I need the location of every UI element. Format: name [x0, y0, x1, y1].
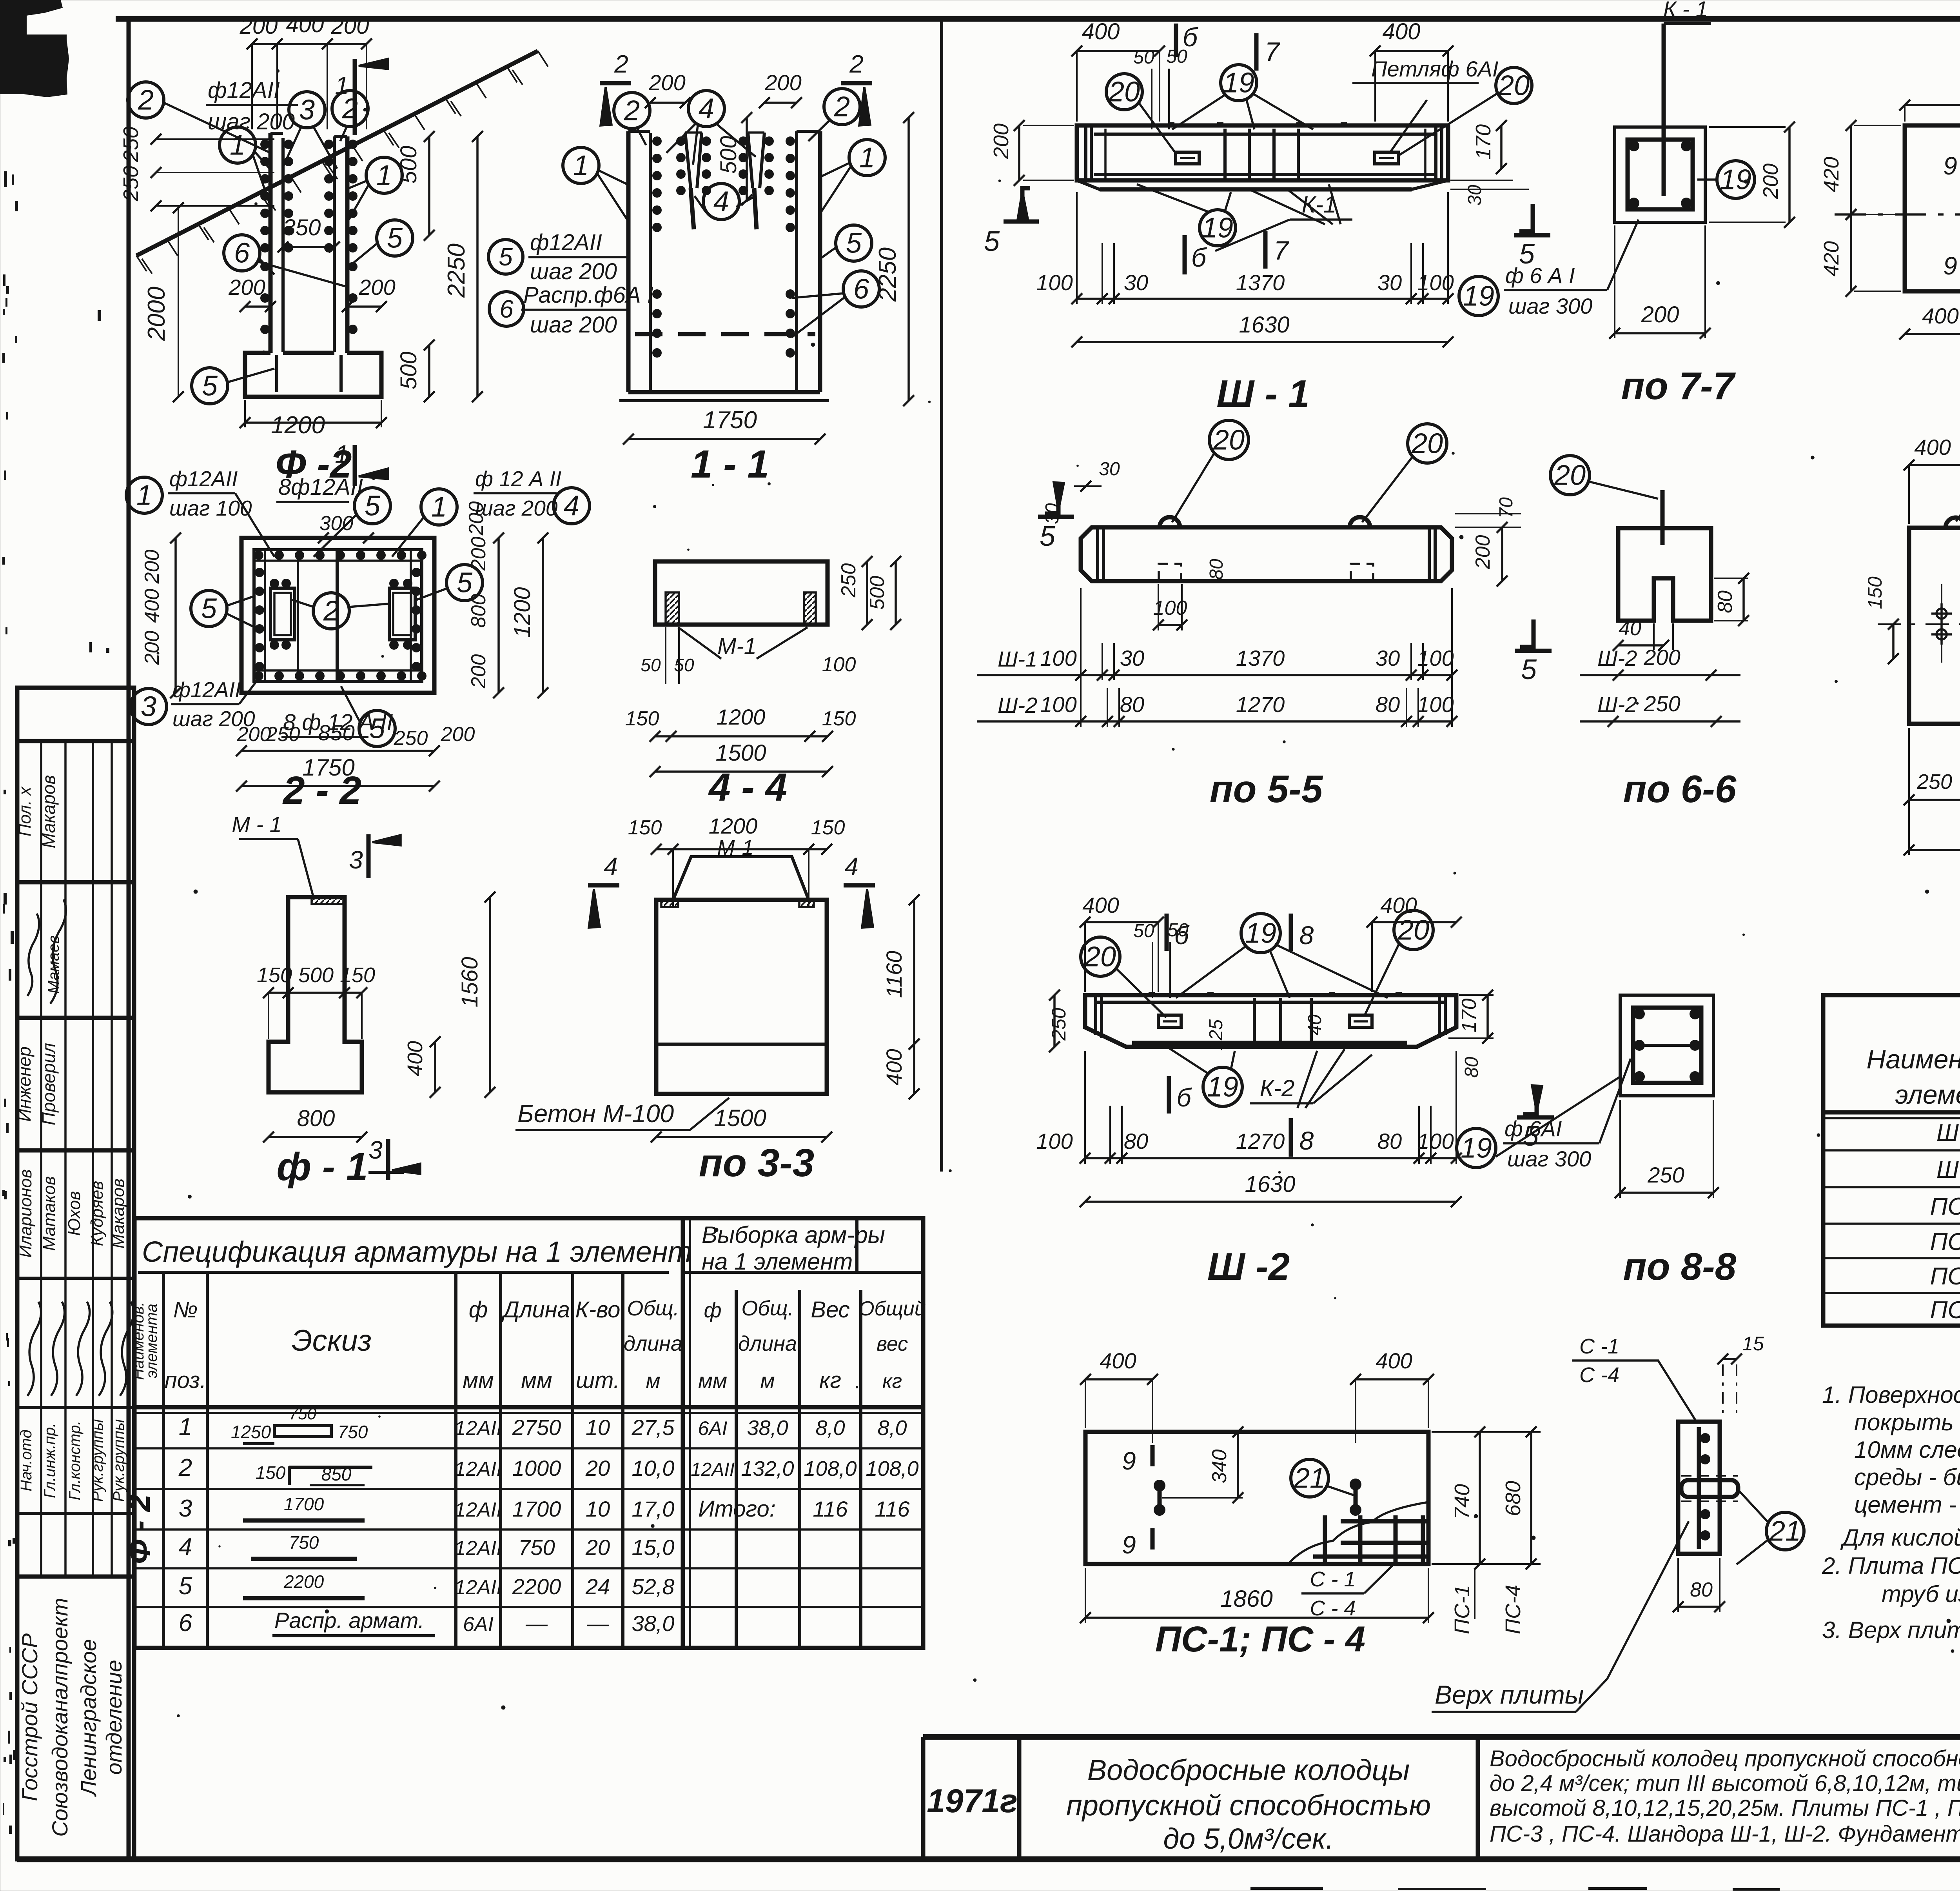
svg-text:ПС-1; ПС - 4: ПС-1; ПС - 4: [1155, 1619, 1365, 1659]
svg-text:400: 400: [141, 589, 163, 623]
callout 19: [1457, 1128, 1496, 1168]
drawing по 5-5 beam top view: [1081, 527, 1452, 581]
svg-text:2: 2: [323, 595, 339, 627]
svg-text:ПС-1: ПС-1: [1450, 1585, 1474, 1634]
Ш-2 loop plates: [1158, 1015, 1181, 1027]
svg-text:150: 150: [628, 816, 662, 839]
svg-text:элемента: элемента: [1895, 1080, 1960, 1110]
svg-text:ПС-1: ПС-1: [1930, 1193, 1960, 1220]
drawing Ф-1 foundation: [269, 897, 362, 1092]
svg-text:4 - 4: 4 - 4: [708, 765, 787, 809]
svg-text:м: м: [760, 1369, 775, 1393]
svg-text:9: 9: [1943, 152, 1957, 180]
svg-text:1270: 1270: [1236, 1129, 1285, 1153]
svg-text:по 3-3: по 3-3: [699, 1141, 814, 1185]
svg-text:б: б: [1174, 921, 1190, 950]
callout 20: [1394, 910, 1433, 950]
svg-text:400: 400: [882, 1049, 906, 1085]
svg-text:150: 150: [625, 707, 659, 730]
Ф-2 right wall: [333, 136, 336, 352]
svg-text:800: 800: [297, 1106, 335, 1131]
svg-text:3: 3: [349, 846, 363, 874]
svg-text:80: 80: [1120, 692, 1144, 717]
svg-text:Распр. армат.: Распр. армат.: [274, 1608, 424, 1633]
svg-text:420: 420: [1820, 241, 1843, 276]
svg-text:1500: 1500: [715, 740, 766, 766]
svg-text:12АII: 12АII: [454, 1499, 502, 1521]
svg-text:1200: 1200: [717, 705, 766, 729]
svg-text:1560: 1560: [457, 957, 483, 1007]
svg-text:250: 250: [119, 166, 143, 202]
ground slope line with hatching: [136, 51, 538, 256]
svg-text:38,0: 38,0: [632, 1611, 675, 1636]
svg-text:1630: 1630: [1245, 1172, 1295, 1197]
svg-text:2: 2: [849, 50, 864, 78]
svg-text:покрыть слоем горячей асфал: покрыть слоем горячей асфальтовой мастик…: [1854, 1409, 1960, 1435]
svg-text:80: 80: [1714, 590, 1737, 613]
svg-text:Ш-2: Ш-2: [1597, 692, 1637, 717]
svg-text:400: 400: [1383, 19, 1421, 44]
svg-text:200: 200: [240, 13, 278, 39]
Ш-1 rebar: [1094, 133, 1435, 136]
svg-text:С -4: С -4: [1579, 1363, 1619, 1387]
svg-text:Длина: Длина: [501, 1297, 570, 1322]
svg-text:40: 40: [1305, 1014, 1325, 1035]
svg-text:2250: 2250: [443, 243, 470, 298]
svg-text:Пол. х: Пол. х: [15, 786, 34, 837]
right dims 740/680: [1479, 1432, 1481, 1564]
svg-text:4: 4: [713, 186, 729, 217]
svg-text:—: —: [525, 1611, 548, 1636]
scan blob top-left: [0, 0, 69, 97]
svg-text:по 6-6: по 6-6: [1623, 767, 1737, 810]
callout 1: [849, 140, 885, 176]
svg-text:Распр.ф6А I: Распр.ф6А I: [523, 282, 653, 308]
svg-text:№: №: [173, 1297, 198, 1322]
section mark 5 left: [1022, 188, 1030, 220]
callout 1: [220, 127, 256, 163]
svg-text:4: 4: [699, 93, 714, 124]
1-1 walls: [626, 131, 631, 392]
svg-text:Макаров: Макаров: [109, 1179, 128, 1249]
svg-text:кг: кг: [819, 1368, 841, 1393]
callout 4: [703, 183, 739, 220]
svg-text:200: 200: [648, 70, 685, 95]
drawing по 7-7 (К-1 cage): [1615, 127, 1705, 222]
section mark 7 bottom: [1263, 231, 1268, 269]
drawing по 6-6 block: [1618, 528, 1711, 621]
svg-text:20: 20: [1084, 941, 1116, 972]
svg-text:4: 4: [844, 852, 858, 881]
svg-text:шаг 300: шаг 300: [1507, 1146, 1591, 1171]
svg-text:6: 6: [853, 273, 869, 305]
svg-text:400: 400: [1376, 1348, 1412, 1373]
svg-text:19: 19: [1461, 1132, 1492, 1164]
svg-text:420: 420: [1820, 157, 1843, 192]
svg-text:Для кислой среды - цемент: Для кислой среды - цемент заменяется мол…: [1840, 1524, 1960, 1551]
svg-text:5: 5: [499, 243, 513, 271]
svg-text:400: 400: [403, 1041, 427, 1076]
svg-text:Вес: Вес: [811, 1297, 849, 1322]
svg-text:250: 250: [1916, 770, 1952, 794]
callout 5: [354, 488, 390, 524]
svg-text:5: 5: [457, 567, 473, 598]
svg-text:250: 250: [394, 727, 428, 750]
svg-text:100: 100: [1040, 646, 1076, 670]
svg-text:80: 80: [1206, 559, 1227, 580]
svg-text:Общий: Общий: [858, 1297, 926, 1320]
svg-text:12АII: 12АII: [691, 1459, 735, 1480]
svg-text:1200: 1200: [510, 587, 535, 638]
svg-text:ф12АII: ф12АII: [208, 78, 280, 103]
svg-text:ПС-3 , ПС-4. Шандора Ш-1, Ш-2.: ПС-3 , ПС-4. Шандора Ш-1, Ш-2. Фундамент…: [1490, 1821, 1960, 1847]
svg-text:350: 350: [283, 215, 321, 240]
callout 5: [359, 710, 395, 747]
svg-text:5: 5: [1521, 654, 1537, 685]
drawing Ш-2 shandor beam: [1085, 995, 1456, 1047]
drawing plan 2-2: [241, 538, 434, 693]
svg-text:19: 19: [1202, 212, 1233, 243]
callout 2: [614, 93, 650, 129]
callout 19: [1241, 914, 1280, 953]
svg-text:м: м: [646, 1369, 660, 1393]
svg-text:250: 250: [1048, 1008, 1070, 1041]
spec row lines: [134, 1447, 923, 1450]
svg-text:мм: мм: [521, 1368, 552, 1393]
svg-text:10,0: 10,0: [632, 1456, 675, 1480]
svg-text:М-1: М-1: [717, 634, 757, 659]
svg-text:Нач.отд: Нач.отд: [18, 1430, 35, 1491]
svg-text:ф: ф: [469, 1297, 488, 1322]
svg-text:7: 7: [1274, 236, 1289, 265]
svg-text:1500: 1500: [714, 1105, 766, 1131]
sheet frame: [116, 16, 1960, 22]
svg-text:ф: ф: [704, 1299, 721, 1322]
1-1 dashed level line: [635, 332, 815, 336]
svg-text:Общ.: Общ.: [741, 1297, 793, 1320]
svg-text:ф 12 А II: ф 12 А II: [475, 467, 561, 491]
svg-text:100: 100: [1036, 270, 1073, 295]
section mark 3 top: [367, 834, 371, 878]
svg-text:М - 1: М - 1: [232, 812, 282, 837]
svg-text:б: б: [1176, 1083, 1192, 1112]
svg-text:2: 2: [624, 95, 640, 126]
callout 4: [688, 91, 724, 127]
section mark 1 (top): [353, 59, 357, 135]
svg-text:Верх плиты: Верх плиты: [1435, 1680, 1584, 1709]
svg-text:длина: длина: [738, 1332, 797, 1355]
svg-text:150: 150: [340, 963, 375, 987]
2-2 column boxes: [270, 588, 295, 640]
svg-text:250: 250: [837, 563, 860, 598]
svg-text:12АII: 12АII: [454, 1537, 502, 1560]
drawing section по 3-3: [673, 857, 809, 900]
svg-text:12АII: 12АII: [454, 1417, 502, 1440]
svg-text:52,8: 52,8: [632, 1574, 675, 1599]
svg-text:150: 150: [822, 707, 856, 730]
svg-text:5: 5: [179, 1573, 192, 1600]
svg-text:150: 150: [256, 1462, 286, 1483]
svg-text:6: 6: [499, 295, 514, 323]
svg-text:Проверил: Проверил: [38, 1043, 59, 1125]
svg-text:1270: 1270: [1236, 692, 1285, 717]
svg-text:5: 5: [369, 713, 385, 744]
svg-text:200: 200: [467, 654, 490, 689]
svg-text:Ш-1: Ш-1: [998, 647, 1037, 671]
callout 20: [1408, 424, 1447, 463]
callout 4: [554, 488, 590, 524]
svg-text:1250: 1250: [231, 1422, 271, 1442]
svg-text:108,0: 108,0: [804, 1457, 857, 1480]
svg-text:116: 116: [813, 1497, 848, 1521]
svg-text:50: 50: [674, 655, 694, 675]
svg-text:по 5-5: по 5-5: [1210, 767, 1323, 810]
svg-text:шт.: шт.: [576, 1368, 620, 1393]
svg-text:400: 400: [1082, 893, 1119, 917]
lifting loops: [1160, 517, 1180, 527]
svg-text:1700: 1700: [284, 1494, 324, 1514]
svg-text:на 1 элемент: на 1 элемент: [702, 1248, 853, 1275]
svg-text:Гл.констр.: Гл.констр.: [66, 1421, 83, 1500]
callout 2: [313, 593, 349, 629]
svg-text:ф 6 А I: ф 6 А I: [1505, 263, 1575, 288]
svg-text:20: 20: [1498, 70, 1530, 101]
svg-text:Бетон М-100: Бетон М-100: [517, 1099, 674, 1128]
svg-text:400: 400: [1100, 1348, 1136, 1373]
callout 5: [836, 225, 872, 261]
callout 21: [1766, 1512, 1804, 1550]
svg-text:5: 5: [387, 222, 403, 254]
svg-text:250: 250: [1647, 1163, 1684, 1187]
svg-text:Мамаев: Мамаев: [45, 936, 62, 994]
svg-text:1630: 1630: [1239, 312, 1289, 338]
svg-text:Петляф 6АI: Петляф 6АI: [1371, 56, 1498, 81]
svg-text:1: 1: [573, 150, 589, 181]
callout 5: [446, 565, 483, 601]
svg-text:50: 50: [641, 655, 661, 675]
svg-text:30: 30: [1465, 185, 1485, 206]
svg-text:19: 19: [1207, 1071, 1238, 1103]
svg-text:15: 15: [1742, 1333, 1764, 1355]
svg-text:15,0: 15,0: [632, 1535, 675, 1560]
svg-text:1: 1: [376, 160, 392, 191]
title block: [923, 1734, 1960, 1740]
svg-text:80: 80: [1377, 1129, 1402, 1153]
svg-text:10: 10: [586, 1415, 610, 1440]
svg-text:ф12АII: ф12АII: [530, 230, 602, 255]
svg-text:труб из колодцев.: труб из колодцев.: [1882, 1581, 1960, 1607]
Ф-2 rebar dots: [260, 140, 270, 149]
svg-text:1: 1: [230, 129, 245, 161]
svg-text:элемента: элемента: [143, 1304, 160, 1378]
svg-text:200: 200: [764, 70, 801, 95]
1-1 rebar dots: [652, 136, 662, 146]
svg-text:4: 4: [564, 490, 579, 521]
Ш-1 bottom band: [1077, 180, 1448, 189]
svg-text:200: 200: [1643, 645, 1680, 670]
svg-text:200: 200: [1641, 302, 1679, 327]
svg-text:ПС-4: ПС-4: [1930, 1297, 1960, 1324]
svg-text:Ленинградское: Ленинградское: [76, 1639, 101, 1797]
svg-text:750: 750: [289, 1404, 317, 1423]
svg-text:поз.: поз.: [165, 1368, 207, 1393]
Ф-2 left wall: [269, 133, 273, 353]
callout 2: [332, 91, 368, 127]
svg-text:мм: мм: [698, 1369, 727, 1393]
drawing Ш-1 shandor beam: [1077, 125, 1448, 180]
svg-text:30: 30: [1099, 459, 1120, 480]
loops: [1151, 1445, 1155, 1466]
svg-text:Макаров: Макаров: [38, 775, 59, 848]
svg-text:Водосбросный колодец пропускно: Водосбросный колодец пропускной способно…: [1490, 1746, 1960, 1771]
callout 1: [421, 489, 457, 525]
svg-text:80: 80: [1376, 692, 1400, 717]
svg-text:100: 100: [1040, 692, 1076, 717]
С-1/С-4 side detail: [1678, 1422, 1720, 1554]
svg-text:2750: 2750: [512, 1415, 561, 1440]
mesh С-1/С-4: [1288, 1502, 1428, 1564]
svg-text:19: 19: [1463, 280, 1494, 312]
svg-text:Союзводоканалпроект: Союзводоканалпроект: [47, 1598, 72, 1837]
svg-text:шаг 200: шаг 200: [530, 312, 617, 338]
Ф-2 footing: [245, 353, 381, 397]
callout 5: [488, 240, 523, 274]
callout 1: [366, 157, 402, 193]
svg-text:150: 150: [811, 816, 845, 839]
section marks 2: [600, 81, 631, 85]
svg-text:3: 3: [299, 94, 315, 125]
svg-text:1160: 1160: [882, 951, 906, 998]
svg-text:21: 21: [1769, 1515, 1801, 1547]
drawing ПС-3 plate plan: [1909, 528, 1960, 724]
svg-text:3: 3: [141, 691, 156, 722]
svg-text:шаг 300: шаг 300: [1508, 294, 1592, 318]
svg-text:100: 100: [1417, 692, 1454, 717]
svg-text:108,0: 108,0: [866, 1457, 918, 1480]
callout 5: [191, 590, 227, 627]
svg-text:4: 4: [604, 852, 618, 881]
svg-text:длина: длина: [624, 1332, 682, 1355]
svg-text:3: 3: [368, 1136, 383, 1164]
section marks 4: [588, 883, 619, 888]
svg-text:цемент - 57%.: цемент - 57%.: [1854, 1491, 1960, 1518]
callout 6: [224, 235, 260, 271]
svg-text:шаг 200: шаг 200: [172, 707, 255, 731]
svg-text:1200: 1200: [271, 412, 325, 439]
svg-text:20: 20: [585, 1535, 610, 1560]
dashed notches: [1159, 564, 1181, 581]
svg-text:Ш-2: Ш-2: [1597, 646, 1637, 670]
svg-text:340: 340: [1208, 1450, 1231, 1484]
2-2 rebar dots: [254, 550, 263, 560]
svg-text:40: 40: [1619, 617, 1641, 640]
callout 5: [377, 220, 413, 256]
svg-text:Ш-2: Ш-2: [998, 693, 1037, 718]
svg-text:8,0: 8,0: [815, 1416, 845, 1440]
callout 20: [1496, 67, 1532, 104]
svg-text:1000: 1000: [512, 1456, 561, 1480]
svg-text:17,0: 17,0: [632, 1497, 675, 1521]
svg-text:20: 20: [1397, 914, 1429, 946]
svg-text:Рук.группы: Рук.группы: [110, 1419, 127, 1502]
svg-text:7: 7: [1265, 37, 1280, 67]
svg-text:20: 20: [585, 1456, 610, 1480]
callout 3: [131, 688, 167, 725]
svg-text:1750: 1750: [703, 407, 757, 434]
1-1 bottom slab line: [628, 390, 820, 394]
svg-text:Ш - 1: Ш - 1: [1216, 372, 1310, 415]
svg-text:12АII: 12АII: [454, 1458, 502, 1480]
svg-text:5: 5: [1040, 521, 1056, 552]
ПС-3 crosses: [1931, 612, 1952, 615]
svg-text:10мм следующего состава: дл: 10мм следующего состава: для нейтральной…: [1854, 1437, 1960, 1463]
svg-text:30: 30: [1377, 270, 1402, 295]
svg-text:116: 116: [875, 1497, 910, 1521]
svg-text:125: 125: [1206, 1019, 1227, 1051]
svg-text:9: 9: [1122, 1447, 1136, 1475]
svg-text:Рук.группы: Рук.группы: [89, 1419, 106, 1502]
svg-text:Ш-1: Ш-1: [1936, 1119, 1960, 1146]
drawing по 8-8 (К-2 cage): [1620, 995, 1713, 1096]
svg-text:отделение: отделение: [102, 1660, 126, 1775]
callout 3: [289, 92, 325, 128]
svg-text:мм: мм: [463, 1368, 494, 1393]
section 5 marks: [1045, 482, 1058, 514]
svg-text:400: 400: [1922, 303, 1958, 328]
svg-text:1370: 1370: [1236, 270, 1285, 295]
svg-text:740: 740: [1450, 1484, 1474, 1519]
svg-text:850: 850: [321, 1464, 352, 1484]
2-2 stirrup lines: [336, 550, 339, 681]
callout 1: [126, 477, 162, 513]
svg-text:5: 5: [202, 370, 218, 401]
svg-text:750: 750: [338, 1422, 368, 1442]
callout 21: [1291, 1459, 1328, 1497]
svg-text:1370: 1370: [1236, 646, 1285, 670]
svg-text:кг: кг: [882, 1370, 902, 1393]
svg-text:пропускной способностью: пропускной способностью: [1066, 1789, 1431, 1822]
К-2 pin: [1661, 490, 1665, 545]
svg-text:500: 500: [866, 576, 889, 610]
callout 1: [563, 147, 599, 183]
callout 20: [1106, 74, 1142, 110]
svg-text:1200: 1200: [709, 814, 758, 838]
section mark 1 (bottom): [353, 445, 357, 486]
vertical divider line: [940, 20, 943, 1172]
svg-text:400: 400: [1380, 893, 1417, 917]
callout 2: [128, 82, 164, 118]
svg-text:Наименование: Наименование: [1866, 1045, 1960, 1074]
header row bottom (double): [134, 1405, 923, 1410]
svg-text:2200: 2200: [512, 1574, 561, 1599]
svg-text:19: 19: [1223, 67, 1254, 98]
svg-text:6: 6: [234, 237, 250, 269]
svg-text:1700: 1700: [512, 1497, 561, 1521]
svg-text:б: б: [1191, 243, 1207, 272]
svg-text:2000: 2000: [143, 287, 170, 341]
svg-text:3: 3: [179, 1495, 192, 1522]
svg-text:Ш -2: Ш -2: [1207, 1245, 1290, 1288]
svg-text:1860: 1860: [1220, 1586, 1272, 1612]
svg-text:100: 100: [822, 653, 856, 676]
svg-text:К - 1: К - 1: [1663, 0, 1708, 21]
svg-text:400: 400: [1082, 19, 1120, 44]
svg-text:2. Плита ПС-3 предназначена: 2. Плита ПС-3 предназначена для заглушки…: [1822, 1553, 1960, 1579]
svg-text:132,0: 132,0: [741, 1457, 794, 1480]
svg-text:30: 30: [1124, 270, 1148, 295]
callout 6: [489, 292, 524, 326]
К-1 leader: [1662, 24, 1666, 196]
